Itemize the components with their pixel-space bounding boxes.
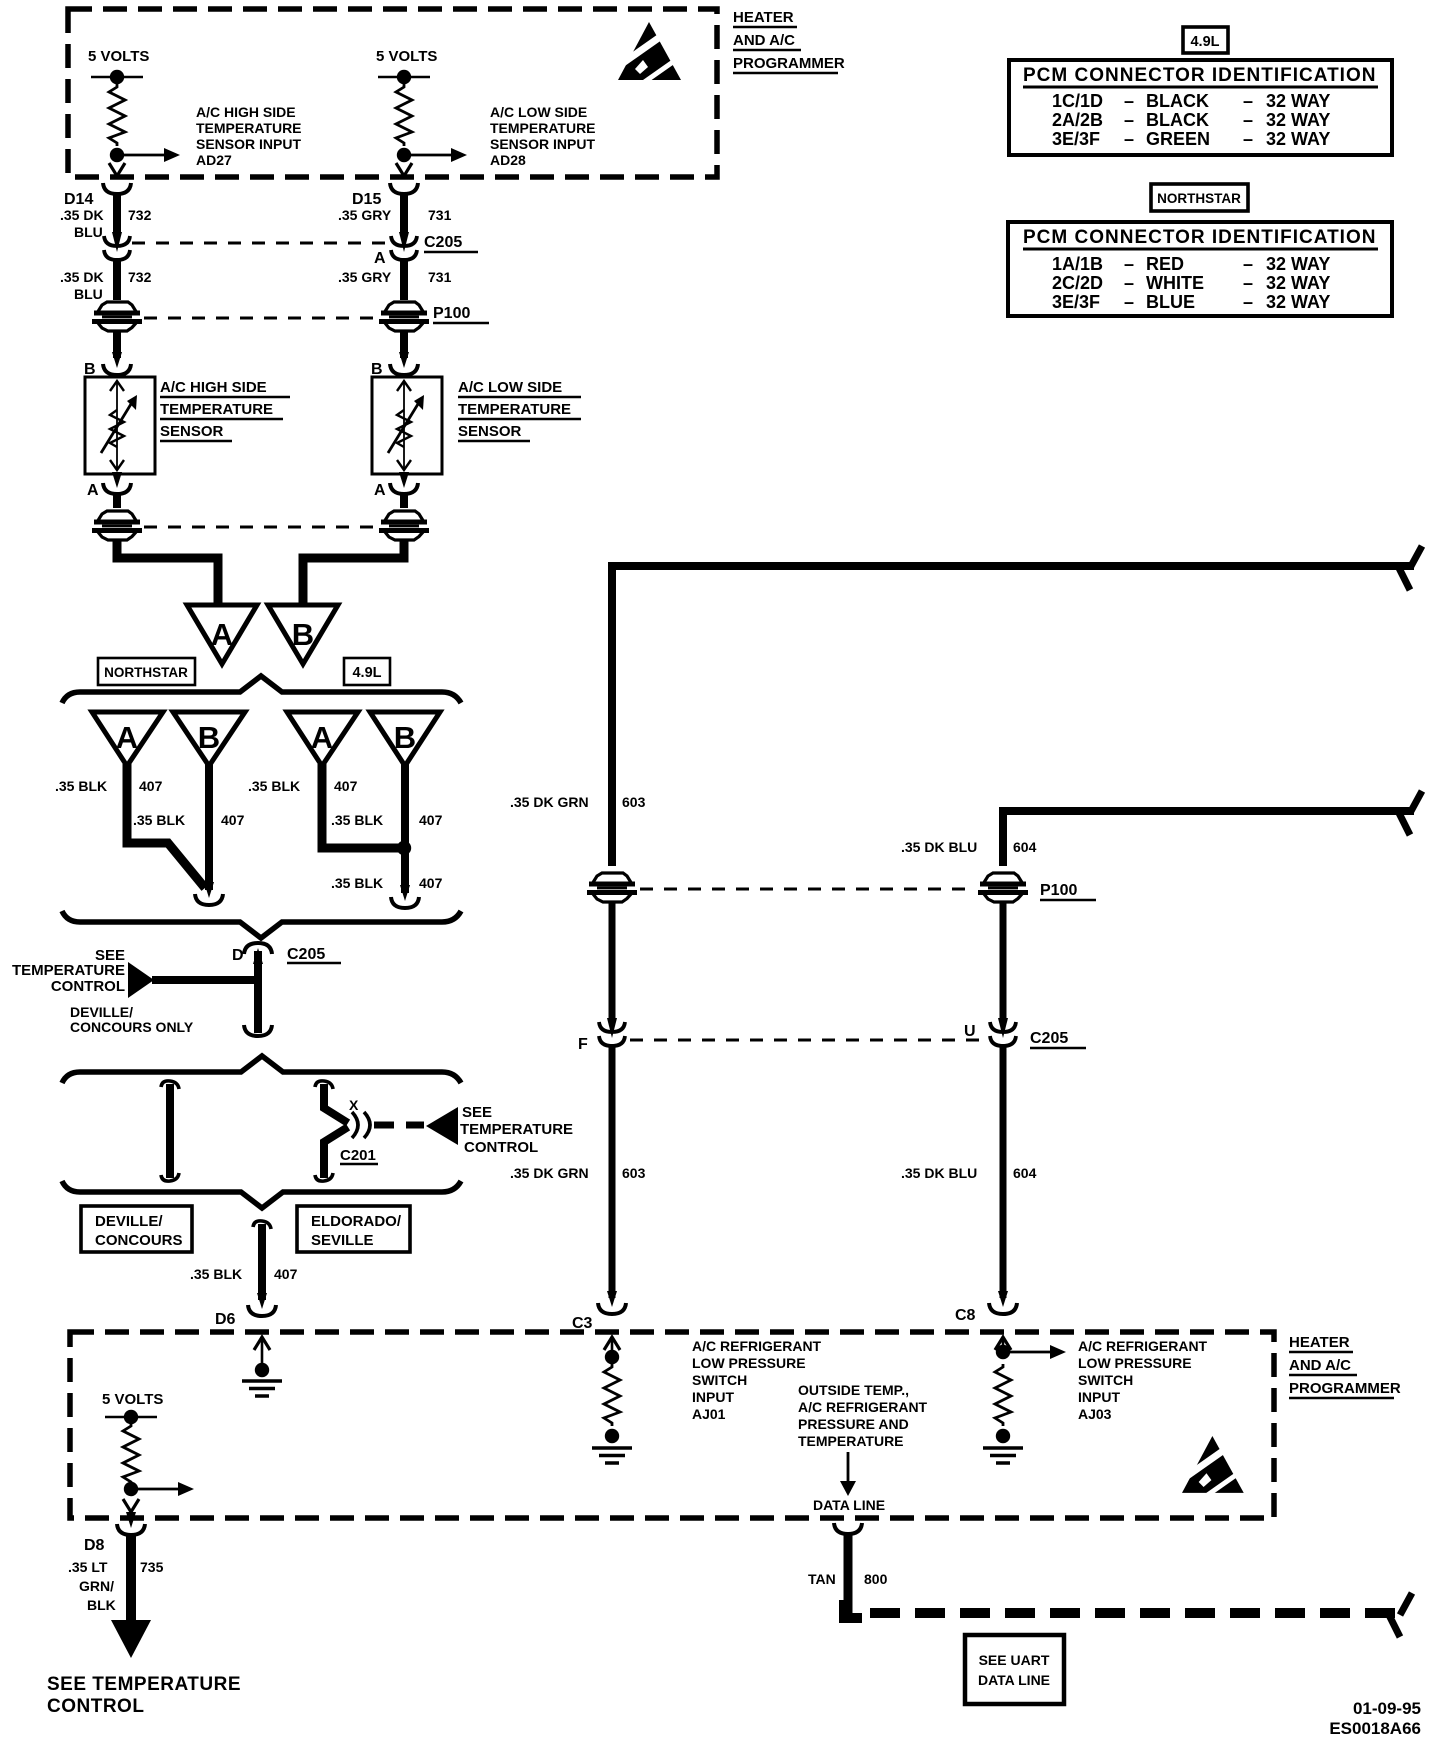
svg-text:407: 407 bbox=[419, 812, 443, 828]
switch input C8: arrow up bbox=[995, 1337, 1011, 1359]
wire 407 to D6 bbox=[253, 1221, 271, 1300]
svg-text:PROGRAMMER: PROGRAMMER bbox=[1289, 1380, 1401, 1397]
svg-text:–: – bbox=[1124, 110, 1134, 130]
pin D15 connector bbox=[352, 183, 418, 208]
svg-text:731: 731 bbox=[428, 269, 452, 285]
svg-text:–: – bbox=[1124, 254, 1134, 274]
svg-text:3E/3F: 3E/3F bbox=[1052, 129, 1100, 149]
svg-text:TEMPERATURE: TEMPERATURE bbox=[12, 962, 125, 979]
wire 4.9L B down bbox=[401, 764, 409, 893]
wire tip into D8 bbox=[123, 1499, 139, 1512]
svg-text:OUTSIDE TEMP.,: OUTSIDE TEMP., bbox=[798, 1382, 909, 1398]
svg-text:CONCOURS: CONCOURS bbox=[95, 1232, 183, 1249]
svg-text:NORTHSTAR: NORTHSTAR bbox=[1157, 191, 1241, 206]
svg-text:PRESSURE AND: PRESSURE AND bbox=[798, 1416, 909, 1432]
svg-text:DATA LINE: DATA LINE bbox=[813, 1497, 885, 1513]
svg-text:C205: C205 bbox=[424, 234, 462, 251]
svg-text:C205: C205 bbox=[287, 946, 325, 963]
svg-text:SWITCH: SWITCH bbox=[1078, 1372, 1133, 1388]
pin A connector (low side sensor) bbox=[374, 472, 418, 499]
splice triangle A (northstar) bbox=[92, 712, 163, 766]
dashed tie line C205 (mid) bbox=[630, 1039, 980, 1042]
svg-text:B: B bbox=[84, 361, 96, 378]
svg-text:732: 732 bbox=[128, 207, 152, 223]
wire 4.9L A joining B bbox=[322, 764, 400, 848]
label date / document number bbox=[1329, 1699, 1421, 1738]
svg-text:.35 BLK: .35 BLK bbox=[248, 778, 300, 794]
pin D14 connector bbox=[64, 183, 131, 208]
arrow A/C high side sensor input bbox=[121, 148, 180, 162]
off-page barb (wire 603) bbox=[1398, 546, 1422, 590]
label NORTHSTAR box bbox=[98, 658, 195, 685]
splice triangle A (4.9L) bbox=[287, 712, 358, 766]
wire 731 lower bbox=[400, 258, 408, 300]
svg-text:–: – bbox=[1243, 110, 1253, 130]
brace upper (engine split) bbox=[62, 676, 461, 703]
off-page barb (wire 604) bbox=[1398, 791, 1422, 835]
svg-text:TEMPERATURE: TEMPERATURE bbox=[196, 120, 302, 136]
svg-text:BLK: BLK bbox=[87, 1597, 116, 1613]
svg-text:32 WAY: 32 WAY bbox=[1266, 129, 1330, 149]
connector C201 bbox=[340, 1097, 378, 1164]
wire tip into D14 bbox=[109, 163, 125, 176]
svg-text:32 WAY: 32 WAY bbox=[1266, 273, 1330, 293]
svg-text:–: – bbox=[1243, 292, 1253, 312]
svg-text:A: A bbox=[211, 617, 233, 652]
svg-text:TAN: TAN bbox=[808, 1571, 836, 1587]
svg-text:A/C HIGH SIDE: A/C HIGH SIDE bbox=[160, 379, 267, 396]
node 5 VOLTS (left) bbox=[88, 48, 149, 84]
label .35 BLK 407 (northstar B) bbox=[133, 812, 245, 828]
svg-text:A/C REFRIGERANT: A/C REFRIGERANT bbox=[1078, 1338, 1208, 1354]
wire northstar A joining B bbox=[127, 764, 205, 888]
resistor (5V pull-up, low side) bbox=[396, 84, 412, 146]
junction dot 4.9L bbox=[397, 841, 411, 855]
svg-text:.35 BLK: .35 BLK bbox=[133, 812, 185, 828]
wire end cup bbox=[244, 1025, 272, 1036]
connector C205 pin D bbox=[232, 943, 341, 964]
svg-text:D8: D8 bbox=[84, 1537, 105, 1554]
label A/C REFRIGERANT LOW PRESSURE SWITCH INPUT AJ03 bbox=[1078, 1338, 1208, 1422]
svg-text:–: – bbox=[1243, 273, 1253, 293]
svg-text:TEMPERATURE: TEMPERATURE bbox=[458, 401, 571, 418]
svg-text:HEATER: HEATER bbox=[1289, 1334, 1350, 1351]
label .35 DK GRN 603 (upper) bbox=[510, 794, 646, 810]
svg-text:CONTROL: CONTROL bbox=[51, 978, 125, 995]
svg-text:TEMPERATURE: TEMPERATURE bbox=[798, 1433, 904, 1449]
svg-text:INPUT: INPUT bbox=[1078, 1389, 1120, 1405]
svg-text:X: X bbox=[349, 1097, 359, 1113]
svg-text:.35 DK GRN: .35 DK GRN bbox=[510, 794, 589, 810]
svg-text:AD28: AD28 bbox=[490, 152, 526, 168]
svg-text:–: – bbox=[1124, 91, 1134, 111]
ground return for D6 bbox=[242, 1337, 282, 1396]
brace upper (model split) bbox=[62, 1056, 461, 1083]
svg-text:SWITCH: SWITCH bbox=[692, 1372, 747, 1388]
svg-text:.35 DK GRN: .35 DK GRN bbox=[510, 1165, 589, 1181]
svg-text:NORTHSTAR: NORTHSTAR bbox=[104, 665, 188, 680]
svg-text:603: 603 bbox=[622, 1165, 646, 1181]
svg-text:TEMPERATURE: TEMPERATURE bbox=[160, 401, 273, 418]
label 4.9L box bbox=[344, 658, 390, 685]
connector C205 (left half, pin D14 side) bbox=[104, 232, 130, 260]
connector P100 grommet (wire 603) bbox=[587, 873, 637, 902]
heater and a/c programmer box (bottom) bbox=[70, 1332, 1274, 1518]
svg-text:800: 800 bbox=[864, 1571, 888, 1587]
svg-text:BLU: BLU bbox=[74, 224, 103, 240]
svg-text:01-09-95: 01-09-95 bbox=[1353, 1699, 1421, 1718]
svg-text:407: 407 bbox=[221, 812, 245, 828]
connector P100 grommet (left) bbox=[92, 302, 142, 331]
label .35 GRY 731 bbox=[338, 207, 452, 223]
svg-text:–: – bbox=[1124, 292, 1134, 312]
svg-text:407: 407 bbox=[274, 1266, 298, 1282]
svg-text:GREEN: GREEN bbox=[1146, 129, 1210, 149]
svg-text:BLU: BLU bbox=[74, 286, 103, 302]
dashed tie line P100 (mid) bbox=[640, 888, 972, 891]
node junction (bottom 5V) bbox=[124, 1482, 138, 1496]
jumper wire (deville/concours path) bbox=[161, 1081, 179, 1181]
label .35 BLK 407 (4.9L B) bbox=[331, 812, 443, 828]
label A/C LOW SIDE TEMPERATURE SENSOR bbox=[458, 379, 581, 441]
PCM connector identification table (4.9L) bbox=[1009, 60, 1392, 155]
connector 4.9L pin bbox=[391, 885, 419, 908]
wire tip into D15 bbox=[396, 163, 412, 176]
svg-text:32 WAY: 32 WAY bbox=[1266, 91, 1330, 111]
resistor (C8 pull) bbox=[995, 1364, 1011, 1426]
A/C high side temperature sensor bbox=[85, 377, 155, 474]
label SEE TEMPERATURE CONTROL (left mid) bbox=[12, 947, 125, 995]
connector grommet (right, row A) bbox=[379, 511, 429, 540]
svg-text:732: 732 bbox=[128, 269, 152, 285]
svg-text:.35 BLK: .35 BLK bbox=[190, 1266, 242, 1282]
label SEE TEMPERATURE CONTROL (mid) bbox=[460, 1104, 573, 1156]
label A/C LOW SIDE TEMPERATURE SENSOR INPUT AD28 bbox=[490, 104, 596, 168]
svg-text:RED: RED bbox=[1146, 254, 1184, 274]
svg-text:A/C LOW SIDE: A/C LOW SIDE bbox=[458, 379, 562, 396]
svg-text:–: – bbox=[1243, 254, 1253, 274]
wire from arrow to C205 D bbox=[152, 976, 260, 984]
svg-text:C205: C205 bbox=[1030, 1030, 1068, 1047]
label .35 BLK 407 (D6) bbox=[190, 1266, 298, 1282]
svg-text:AND A/C: AND A/C bbox=[733, 32, 795, 49]
splice triangle A (top) bbox=[187, 605, 257, 664]
svg-text:A: A bbox=[374, 250, 386, 267]
label ELDORADO/SEVILLE box bbox=[297, 1206, 410, 1252]
svg-text:SEE UART: SEE UART bbox=[979, 1652, 1050, 1668]
wire 604 down to C8 bbox=[1000, 1044, 1007, 1298]
pin B connector (low side sensor) bbox=[371, 352, 418, 378]
svg-text:.35 DK BLU: .35 DK BLU bbox=[901, 1165, 977, 1181]
svg-text:D6: D6 bbox=[215, 1311, 236, 1328]
splice triangle B (top) bbox=[268, 605, 338, 664]
wire to sensor B (low) bbox=[400, 331, 408, 358]
wire 732 lower bbox=[113, 258, 121, 300]
svg-text:HEATER: HEATER bbox=[733, 9, 794, 26]
svg-text:CONTROL: CONTROL bbox=[464, 1139, 538, 1156]
svg-text:A: A bbox=[311, 720, 333, 755]
svg-text:ES0018A66: ES0018A66 bbox=[1329, 1719, 1421, 1738]
wire 604 bus (top run + down) bbox=[1003, 811, 1414, 866]
svg-text:LOW PRESSURE: LOW PRESSURE bbox=[1078, 1355, 1192, 1371]
wire 735 down arrow bbox=[111, 1534, 151, 1658]
svg-text:CONCOURS ONLY: CONCOURS ONLY bbox=[70, 1019, 194, 1035]
resistor (5V pull-up, bottom) bbox=[123, 1423, 139, 1485]
svg-text:BLACK: BLACK bbox=[1146, 91, 1209, 111]
svg-text:SENSOR: SENSOR bbox=[160, 423, 224, 440]
svg-text:PROGRAMMER: PROGRAMMER bbox=[733, 55, 845, 72]
wire to sensor B bbox=[113, 331, 121, 358]
svg-text:1A/1B: 1A/1B bbox=[1052, 254, 1103, 274]
off-page barb (uart) bbox=[1388, 1593, 1412, 1637]
resistor (5V pull-up, high side) bbox=[109, 84, 125, 146]
label .35 DK BLU 604 (lower) bbox=[901, 1165, 1037, 1181]
node to ground (C3) bbox=[592, 1429, 632, 1463]
svg-text:INPUT: INPUT bbox=[692, 1389, 734, 1405]
svg-text:SENSOR INPUT: SENSOR INPUT bbox=[196, 136, 301, 152]
wire 604 between P100 and C205 bbox=[1000, 902, 1007, 1018]
pin C3 connector bbox=[572, 1291, 626, 1332]
wire bend into triangle B bbox=[303, 540, 404, 607]
label OUTSIDE TEMP block bbox=[798, 1382, 928, 1449]
svg-text:ELDORADO/: ELDORADO/ bbox=[311, 1213, 402, 1230]
svg-text:.35 GRY: .35 GRY bbox=[338, 269, 392, 285]
label A/C HIGH SIDE TEMPERATURE SENSOR bbox=[160, 379, 290, 441]
svg-text:A/C REFRIGERANT: A/C REFRIGERANT bbox=[692, 1338, 822, 1354]
svg-text:BLUE: BLUE bbox=[1146, 292, 1195, 312]
label DEVILLE/CONCOURS box bbox=[81, 1206, 192, 1252]
svg-text:735: 735 bbox=[140, 1559, 164, 1575]
svg-text:–: – bbox=[1124, 273, 1134, 293]
svg-text:SEVILLE: SEVILLE bbox=[311, 1232, 374, 1249]
ESD symbol bottom bbox=[1182, 1436, 1244, 1496]
node to ground (C8) bbox=[983, 1429, 1023, 1463]
label .35 GRY 731 (2) bbox=[338, 269, 452, 285]
svg-text:BLACK: BLACK bbox=[1146, 110, 1209, 130]
svg-text:AND A/C: AND A/C bbox=[1289, 1357, 1351, 1374]
svg-text:DATA LINE: DATA LINE bbox=[978, 1672, 1050, 1688]
label 4.9L box (table) bbox=[1183, 27, 1228, 53]
svg-text:DEVILLE/: DEVILLE/ bbox=[95, 1213, 163, 1230]
dashed tie line C205 bbox=[132, 242, 390, 245]
label SEE TEMPERATURE CONTROL (bottom left) bbox=[47, 1674, 241, 1717]
svg-text:407: 407 bbox=[419, 875, 443, 891]
svg-text:2C/2D: 2C/2D bbox=[1052, 273, 1103, 293]
connector below data line bbox=[834, 1523, 862, 1534]
connector P100 grommet (wire 604) bbox=[978, 873, 1096, 902]
svg-text:LOW PRESSURE: LOW PRESSURE bbox=[692, 1355, 806, 1371]
PCM connector identification table (northstar) bbox=[1008, 222, 1392, 316]
svg-text:A/C REFRIGERANT: A/C REFRIGERANT bbox=[798, 1399, 928, 1415]
wire below C205 D bbox=[254, 951, 262, 1033]
svg-text:AD27: AD27 bbox=[196, 152, 232, 168]
svg-text:AJ01: AJ01 bbox=[692, 1406, 726, 1422]
svg-text:TEMPERATURE: TEMPERATURE bbox=[490, 120, 596, 136]
connector grommet (left, row A) bbox=[92, 511, 142, 540]
svg-text:1C/1D: 1C/1D bbox=[1052, 91, 1103, 111]
connector C205 (right half, pin A) bbox=[374, 232, 478, 267]
svg-text:B: B bbox=[292, 617, 314, 652]
node 5 VOLTS (right) bbox=[376, 48, 437, 84]
svg-text:3E/3F: 3E/3F bbox=[1052, 292, 1100, 312]
dashed tie line row A bbox=[144, 526, 378, 529]
svg-text:407: 407 bbox=[334, 778, 358, 794]
svg-text:D15: D15 bbox=[352, 191, 381, 208]
svg-text:731: 731 bbox=[428, 207, 452, 223]
svg-text:GRN/: GRN/ bbox=[79, 1578, 114, 1594]
pin A connector (high side sensor) bbox=[87, 472, 131, 499]
svg-text:SENSOR: SENSOR bbox=[458, 423, 522, 440]
dashed uart data line bbox=[844, 1600, 862, 1618]
svg-text:2A/2B: 2A/2B bbox=[1052, 110, 1103, 130]
wire northstar B down bbox=[205, 764, 213, 890]
svg-text:–: – bbox=[1243, 91, 1253, 111]
svg-text:D: D bbox=[232, 947, 244, 964]
svg-text:.35 BLK: .35 BLK bbox=[331, 812, 383, 828]
svg-text:A: A bbox=[87, 482, 99, 499]
arrow output (C8) bbox=[1007, 1345, 1066, 1359]
wire 603 down to C3 bbox=[609, 1044, 616, 1298]
svg-text:604: 604 bbox=[1013, 1165, 1037, 1181]
label HEATER AND A/C PROGRAMMER (bottom right) bbox=[1289, 1334, 1401, 1398]
pin C8 connector bbox=[955, 1291, 1017, 1324]
svg-text:B: B bbox=[198, 720, 220, 755]
label HEATER AND A/C PROGRAMMER (top right of box) bbox=[733, 9, 845, 73]
svg-text:SENSOR INPUT: SENSOR INPUT bbox=[490, 136, 595, 152]
svg-text:.35 DK: .35 DK bbox=[60, 207, 104, 223]
svg-text:32 WAY: 32 WAY bbox=[1266, 110, 1330, 130]
connector P100 grommet (right) bbox=[379, 302, 489, 331]
wire 731 upper bbox=[400, 192, 408, 232]
svg-text:.35 DK: .35 DK bbox=[60, 269, 104, 285]
svg-text:C8: C8 bbox=[955, 1307, 976, 1324]
label A/C REFRIGERANT LOW PRESSURE SWITCH INPUT AJ01 bbox=[692, 1338, 822, 1422]
svg-text:32 WAY: 32 WAY bbox=[1266, 254, 1330, 274]
A/C low side temperature sensor bbox=[372, 377, 442, 474]
svg-text:32 WAY: 32 WAY bbox=[1266, 292, 1330, 312]
node 5 VOLTS (bottom) bbox=[102, 1391, 163, 1424]
svg-text:604: 604 bbox=[1013, 839, 1037, 855]
arrow A/C low side sensor input bbox=[408, 148, 467, 162]
pin D8 connector bbox=[84, 1512, 145, 1554]
svg-text:U: U bbox=[964, 1023, 976, 1040]
wire TAN 800 bbox=[844, 1533, 853, 1613]
svg-text:5 VOLTS: 5 VOLTS bbox=[88, 48, 149, 65]
label .35 BLK 407 (4.9L joined) bbox=[331, 875, 443, 891]
label TAN 800 bbox=[808, 1571, 888, 1587]
arrow output (bottom 5V) bbox=[135, 1482, 194, 1496]
label .35 LT GRN/BLK 735 bbox=[68, 1559, 164, 1613]
svg-text:5 VOLTS: 5 VOLTS bbox=[102, 1391, 163, 1408]
switch input C3: arrow up bbox=[604, 1337, 620, 1364]
pin D6 connector bbox=[215, 1293, 276, 1328]
label .35 DK BLU 732 bbox=[60, 207, 152, 240]
dashed wire to temperature control bbox=[374, 1122, 424, 1129]
svg-text:5 VOLTS: 5 VOLTS bbox=[376, 48, 437, 65]
svg-text:–: – bbox=[1124, 129, 1134, 149]
connector C205 pin F bbox=[578, 1018, 625, 1053]
svg-text:A/C HIGH SIDE: A/C HIGH SIDE bbox=[196, 104, 296, 120]
splice triangle B (4.9L) bbox=[370, 712, 440, 766]
svg-text:AJ03: AJ03 bbox=[1078, 1406, 1112, 1422]
label NORTHSTAR box (table) bbox=[1151, 184, 1248, 211]
arrow to data line bbox=[840, 1452, 856, 1496]
svg-text:P100: P100 bbox=[433, 305, 470, 322]
svg-text:WHITE: WHITE bbox=[1146, 273, 1204, 293]
resistor (C3 pull) bbox=[604, 1364, 620, 1426]
splice triangle B (northstar) bbox=[173, 712, 245, 766]
svg-text:DEVILLE/: DEVILLE/ bbox=[70, 1004, 133, 1020]
wire 603 between P100 and C205 bbox=[609, 902, 616, 1018]
wire bend into triangle A bbox=[117, 540, 218, 607]
wire below A bbox=[113, 494, 121, 508]
svg-text:603: 603 bbox=[622, 794, 646, 810]
brace lower (engine split end) bbox=[62, 911, 461, 938]
off-page arrow (see temperature control) bbox=[426, 1107, 458, 1145]
node junction bbox=[397, 148, 411, 162]
label .35 DK GRN 603 (lower) bbox=[510, 1165, 646, 1181]
label .35 DK BLU 732 (2) bbox=[60, 269, 152, 302]
svg-text:.35 LT: .35 LT bbox=[68, 1559, 108, 1575]
svg-text:4.9L: 4.9L bbox=[1190, 34, 1219, 50]
brace lower (model split end) bbox=[62, 1181, 461, 1208]
svg-text:A: A bbox=[374, 482, 386, 499]
svg-text:C201: C201 bbox=[340, 1147, 376, 1164]
svg-text:P100: P100 bbox=[1040, 882, 1077, 899]
svg-text:B: B bbox=[394, 720, 416, 755]
label .35 BLK 407 (4.9L A) bbox=[248, 778, 358, 794]
svg-text:F: F bbox=[578, 1036, 588, 1053]
svg-text:407: 407 bbox=[139, 778, 163, 794]
node junction bbox=[110, 148, 124, 162]
label DEVILLE/CONCOURS ONLY bbox=[70, 1004, 194, 1035]
svg-text:CONTROL: CONTROL bbox=[47, 1696, 144, 1717]
label SEE UART DATA LINE box bbox=[965, 1635, 1064, 1704]
svg-text:PCM CONNECTOR IDENTIFICATION: PCM CONNECTOR IDENTIFICATION bbox=[1023, 227, 1376, 248]
svg-text:SEE TEMPERATURE: SEE TEMPERATURE bbox=[47, 1674, 241, 1695]
wire 732 upper bbox=[113, 192, 121, 232]
connector northstar pin bbox=[195, 882, 223, 905]
svg-text:A: A bbox=[116, 720, 138, 755]
svg-text:.35 DK BLU: .35 DK BLU bbox=[901, 839, 977, 855]
ESD symbol top bbox=[618, 22, 681, 83]
wire below A (low) bbox=[400, 494, 408, 508]
connector C205 pin U bbox=[964, 1018, 1086, 1048]
heater and a/c programmer box (top) bbox=[68, 9, 717, 177]
svg-text:D14: D14 bbox=[64, 191, 93, 208]
svg-text:.35 GRY: .35 GRY bbox=[338, 207, 392, 223]
svg-text:TEMPERATURE: TEMPERATURE bbox=[460, 1121, 573, 1138]
svg-text:SEE: SEE bbox=[462, 1104, 492, 1121]
svg-text:.35 BLK: .35 BLK bbox=[55, 778, 107, 794]
wire to C201 (eldorado/seville path) bbox=[315, 1081, 348, 1181]
svg-text:.35 BLK: .35 BLK bbox=[331, 875, 383, 891]
svg-text:PCM CONNECTOR IDENTIFICATION: PCM CONNECTOR IDENTIFICATION bbox=[1023, 65, 1376, 86]
svg-text:A/C LOW SIDE: A/C LOW SIDE bbox=[490, 104, 587, 120]
label .35 BLK 407 (northstar A) bbox=[55, 778, 163, 794]
label .35 DK BLU 604 (upper) bbox=[901, 839, 1037, 855]
svg-text:B: B bbox=[371, 361, 383, 378]
dashed tie line P100 bbox=[144, 317, 380, 320]
pin B connector (high side sensor) bbox=[84, 352, 131, 378]
label A/C HIGH SIDE TEMPERATURE SENSOR INPUT AD27 bbox=[196, 104, 302, 168]
svg-text:–: – bbox=[1243, 129, 1253, 149]
off-page arrow from temperature control bbox=[128, 962, 154, 998]
svg-text:4.9L: 4.9L bbox=[352, 665, 381, 681]
wire 603 bus (top run + down) bbox=[612, 566, 1414, 866]
